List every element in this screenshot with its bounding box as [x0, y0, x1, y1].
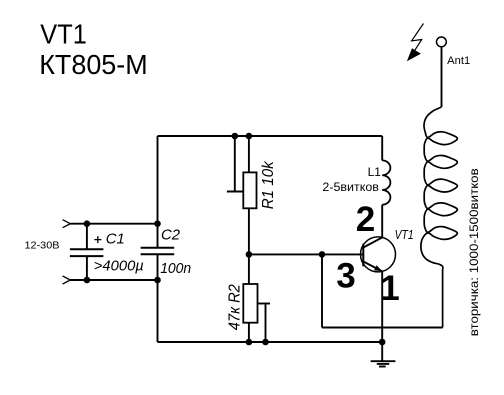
svg-text:C2: C2: [161, 226, 181, 243]
wire secondary return vertical: [321, 254, 323, 327]
junction dot: [246, 339, 253, 346]
lightning bolt arrowhead: [407, 48, 421, 61]
wire collector lead lower: [381, 205, 383, 238]
inductor secondary coil: [421, 107, 458, 328]
wire R1 bottom lead: [248, 208, 250, 254]
wire R2 bottom lead: [248, 323, 250, 342]
wire R2 top lead: [248, 254, 250, 284]
svg-text:VT1: VT1: [395, 227, 414, 242]
resistor R2: [243, 284, 257, 323]
capacitor C1 plus sign: [94, 236, 101, 243]
capacitor C2 leads: [157, 224, 159, 280]
wire secondary bottom horizontal: [322, 327, 443, 329]
wire R2 tap vertical: [265, 304, 267, 343]
wire emitter lead: [381, 271, 383, 361]
capacitor C1 plates: [70, 249, 104, 256]
junction dot: [379, 339, 386, 346]
wire top rail: [158, 135, 383, 137]
transistor VT1 circle: [361, 237, 396, 272]
lightning bolt: [412, 24, 424, 51]
svg-text:C1: C1: [106, 231, 125, 248]
transistor VT1 collector diagonal: [363, 238, 382, 248]
svg-text:вторичка: 1000-1500витков: вторичка: 1000-1500витков: [467, 168, 481, 336]
input terminal bottom arrow: [63, 276, 71, 284]
junction dot: [232, 133, 239, 140]
junction dot: [84, 277, 91, 284]
ground: [371, 361, 396, 366]
transistor VT1 base bar: [362, 244, 364, 267]
svg-text:2-5витков: 2-5витков: [322, 180, 379, 194]
wire R1 tap bar: [227, 191, 243, 193]
junction dot: [154, 220, 161, 227]
capacitor C1 leads: [86, 224, 88, 280]
wire antenna lead: [441, 47, 443, 107]
junction dot: [262, 339, 269, 346]
junction dot: [319, 251, 326, 258]
wire C1 bottom to C2 bottom: [70, 279, 157, 281]
resistor R1: [243, 172, 256, 208]
wire collector lead upper: [381, 136, 383, 160]
transistor VT1 emitter arrowhead: [374, 265, 382, 271]
inductor L1: [382, 160, 390, 204]
wire C2 bottom drop: [157, 280, 159, 342]
svg-text:Ant1: Ant1: [447, 55, 470, 67]
junction dot: [84, 220, 91, 227]
wire left drop from top rail to C2 top: [157, 136, 159, 224]
input terminal top arrow: [63, 220, 71, 228]
svg-text:>4000µ: >4000µ: [94, 258, 144, 275]
wire bottom rail: [158, 341, 383, 343]
wire R1 top lead: [248, 136, 250, 172]
wire R1 tap vertical: [234, 136, 236, 192]
wire R2 tap bar: [258, 303, 271, 305]
transistor VT1 emitter diagonal: [363, 262, 382, 272]
capacitor C2 plates: [141, 248, 175, 255]
svg-text:КТ805-М: КТ805-М: [39, 49, 148, 80]
svg-text:R1 10k: R1 10k: [260, 160, 277, 209]
junction dot: [246, 251, 253, 258]
antenna Ant1 circle: [437, 37, 447, 47]
junction dot: [154, 277, 161, 284]
junction dot: [246, 133, 253, 140]
wire C1 top to C2 top: [70, 223, 157, 225]
svg-text:VT1: VT1: [40, 19, 87, 50]
svg-text:100n: 100n: [160, 260, 191, 277]
svg-text:3: 3: [336, 257, 355, 296]
svg-text:L1: L1: [368, 165, 382, 179]
wire base wire: [249, 253, 363, 255]
svg-text:12-30В: 12-30В: [25, 240, 60, 251]
svg-text:1: 1: [380, 269, 399, 308]
svg-text:2: 2: [356, 200, 375, 239]
svg-text:47к R2: 47к R2: [227, 284, 244, 330]
